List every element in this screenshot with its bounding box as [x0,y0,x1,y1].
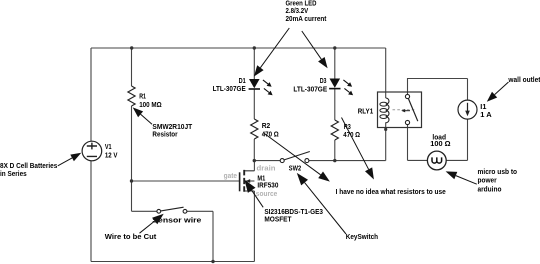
svg-text:MOSFET: MOSFET [264,216,292,223]
wire D1 branch [253,48,255,161]
label R2 value [262,123,279,138]
svg-text:SI2316BDS-T1-GE3: SI2316BDS-T1-GE3 [264,209,323,216]
annotation arrow to I1 [487,82,509,102]
node junction top D1 [253,46,256,49]
label R1 value [139,94,162,110]
annotation arrow to D1 [254,28,289,77]
svg-text:V1: V1 [105,144,112,151]
wire D3 branch [334,48,336,161]
svg-text:power: power [478,178,497,185]
svg-text:12 V: 12 V [105,153,118,160]
svg-text:1 A: 1 A [480,112,491,119]
wire drain vertical [253,161,255,171]
wire sensor drop [212,211,214,261]
annotation arrow to R1 [133,107,152,124]
wire load left [408,159,428,161]
svg-text:micro usb to: micro usb to [478,169,518,176]
svg-text:in Series: in Series [0,171,27,178]
annotation SI2316 text [264,209,323,223]
svg-text:LTL-307GE: LTL-307GE [293,86,327,93]
svg-text:RLY1: RLY1 [358,109,373,116]
node junction gate [130,179,133,182]
relay RLY1 [378,92,422,128]
annotation arrow to load [446,171,477,184]
annotation arrow to M1 [244,180,263,208]
svg-text:LTL-307GE: LTL-307GE [213,86,246,93]
transistor M1 MOSFET [240,170,255,192]
svg-text:R2: R2 [262,123,271,130]
node junction top D3 [333,46,336,49]
LED D1 [249,79,273,95]
annotation arrow to SW2 [297,173,346,234]
wire top rail [91,47,386,49]
wire left rail [90,48,92,262]
resistor R2 [251,119,258,139]
svg-text:arduino: arduino [478,186,502,193]
annotation arrow from R3 label [342,118,374,180]
node junction R3 bottom [333,159,336,162]
svg-text:Green LED: Green LED [286,0,317,7]
svg-text:20mA current: 20mA current [286,16,328,23]
label load value [430,135,451,148]
label D1 value [213,78,246,93]
svg-text:R1: R1 [139,94,146,101]
label M1 value [257,175,278,189]
annotation SMW2R10JT text [152,124,192,139]
node relay coil pin [384,128,387,131]
svg-text:KeySwitch: KeySwitch [346,234,378,241]
wire bottom rail [91,261,254,263]
wire R1 branch [131,48,133,211]
svg-text:gate: gate [224,173,237,180]
svg-text:wall outlet: wall outlet [507,77,540,84]
annotation arrow to V1 [58,153,82,166]
wire I1 drop [467,79,469,161]
wire load right [446,159,467,161]
node junction bottom rail [211,260,214,263]
svg-text:R3: R3 [344,124,351,131]
annotation micro usb text [478,169,518,193]
resistor R3 [331,120,338,140]
wire sensor right [187,210,213,212]
switch sensor wire [157,207,187,213]
LED D3 [329,79,353,96]
resistor R1 [128,86,135,106]
svg-text:I1: I1 [480,104,486,111]
label R3 value [343,124,360,139]
svg-text:Resistor: Resistor [152,131,177,138]
annotation arrow to sensor wire [140,214,164,233]
lamp load [427,151,446,170]
svg-text:M1: M1 [257,175,265,182]
svg-text:IRF530: IRF530 [257,183,278,190]
label D3 value [293,78,327,93]
label V1 value [105,144,118,160]
wire relay switch top [408,79,468,95]
svg-text:source: source [256,191,278,198]
annotation arrow from R2 label [264,133,330,182]
wire SW2 rail [254,160,385,162]
svg-text:2.8/3.2V: 2.8/3.2V [286,8,309,15]
wire source vertical [253,191,255,262]
svg-text:drain: drain [257,165,276,172]
annotation Green LED text [286,0,328,23]
wire gate [132,180,240,182]
svg-text:I have no idea what resistors: I have no idea what resistors to use [336,189,446,196]
battery V1 [82,141,102,161]
wire relay coil bottom [385,122,387,160]
wire sensor left [132,210,157,212]
node junction SW2 left [253,159,256,162]
svg-text:100 Ω: 100 Ω [430,141,451,148]
switch SW2 [280,152,310,163]
svg-text:SW2: SW2 [289,165,301,172]
wire relay coil top [385,48,387,98]
svg-text:D3: D3 [320,78,327,85]
annotation batteries text [0,163,57,178]
wire relay switch bottom [407,125,409,161]
svg-text:D1: D1 [239,78,246,85]
svg-text:100 MΩ: 100 MΩ [139,102,162,109]
svg-text:Wire to be Cut: Wire to be Cut [105,234,157,241]
svg-text:8X D Cell Batteries: 8X D Cell Batteries [0,163,57,170]
label I1 value [480,104,491,119]
node junction top R1 [130,46,133,49]
annotation arrow to D3 [302,31,328,68]
current source I1 [458,100,477,119]
svg-text:SMW2R10JT: SMW2R10JT [152,124,192,131]
